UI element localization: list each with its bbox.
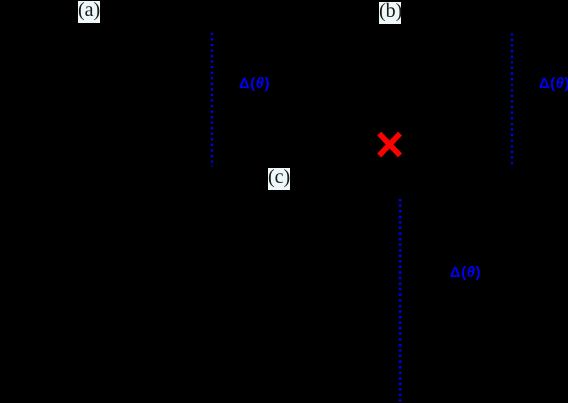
delta label a (239, 76, 270, 92)
delta label c (450, 265, 481, 281)
label (c) (268, 168, 290, 190)
red X marker (379, 134, 400, 156)
dotted cut line c (399, 199, 402, 402)
dotted cut line a (211, 33, 213, 167)
label (a) (78, 1, 100, 23)
dotted cut line b (511, 33, 513, 165)
delta label b (539, 76, 568, 92)
label (b) (379, 2, 401, 24)
